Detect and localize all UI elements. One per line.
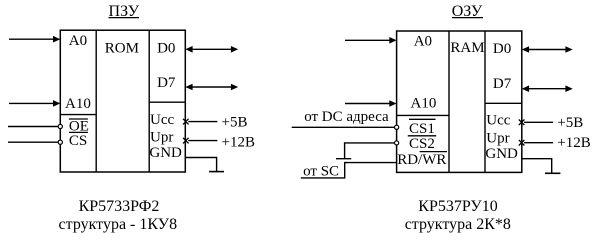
wire GND (U1)	[185, 158, 216, 172]
wire D0 bidirectional bus (U2)	[522, 46, 573, 53]
U2 address section divider	[397, 114, 449, 116]
wire D0 bidirectional bus (U1)	[185, 46, 238, 53]
ground symbol (U1)	[209, 171, 224, 173]
pin label CS with overline (U1)	[69, 132, 88, 149]
svg-text:A10: A10	[65, 96, 91, 112]
svg-text:+12В: +12В	[222, 134, 255, 150]
svg-text:A0: A0	[414, 34, 432, 50]
inversion bubble CS2 (U2)	[395, 141, 399, 145]
wire A0 input with arrow (U1)	[9, 36, 60, 43]
wire D7 bidirectional bus (U1)	[185, 84, 238, 91]
svg-text:от DC адреса: от DC адреса	[304, 109, 389, 125]
svg-text:Upr: Upr	[150, 129, 173, 145]
wire CS1 from DC (U2)	[292, 126, 395, 128]
svg-text:CS2: CS2	[409, 136, 435, 152]
svg-text:Ucc: Ucc	[150, 112, 174, 128]
IC U2 RAM body	[397, 31, 522, 172]
wire OE input (U1)	[8, 126, 58, 128]
svg-text:CS1: CS1	[409, 121, 435, 137]
U1 internal divider left	[95, 30, 97, 172]
power pin marker Upr (U2)	[519, 140, 525, 146]
wire CS2 branch (U2)	[345, 143, 395, 159]
U1 power section divider	[149, 101, 185, 103]
svg-text:A10: A10	[411, 95, 437, 111]
U1 internal divider right	[148, 30, 150, 172]
pin label OE with overline (U1)	[69, 119, 89, 135]
inversion bubble OE (U1)	[58, 124, 62, 128]
wire GND (U2)	[522, 159, 552, 174]
U2 power section divider	[485, 102, 522, 104]
svg-text:КР537РУ10: КР537РУ10	[418, 198, 497, 215]
wire +12V supply (U2)	[524, 142, 553, 144]
junction T-bar on SC branch	[336, 158, 351, 160]
svg-text:+12В: +12В	[557, 135, 590, 151]
svg-text:RAM: RAM	[450, 40, 484, 56]
node ПЗУ title	[109, 3, 140, 20]
node ОЗУ title	[452, 3, 483, 20]
wire A10 input with arrow (U2)	[345, 100, 397, 107]
svg-text:RD/WR: RD/WR	[397, 152, 446, 168]
ground symbol (U2)	[545, 172, 560, 174]
wire от SC to RD/WR (U2)	[301, 163, 397, 178]
svg-text:+5В: +5В	[557, 115, 583, 131]
svg-text:структура 2К*8: структура 2К*8	[405, 216, 511, 233]
svg-text:Upr: Upr	[486, 130, 509, 146]
power pin marker Upr (U1)	[183, 138, 189, 144]
svg-text:+5В: +5В	[222, 114, 248, 130]
power pin marker Ucc (U1)	[183, 119, 189, 125]
wire A0 input with arrow (U2)	[345, 37, 397, 44]
wire D7 bidirectional bus (U2)	[522, 85, 573, 92]
svg-text:КР5733РФ2: КР5733РФ2	[79, 198, 160, 215]
svg-text:Ucc: Ucc	[486, 113, 510, 129]
svg-text:структура - 1КУ8: структура - 1КУ8	[59, 216, 178, 233]
svg-text:ROM: ROM	[105, 41, 139, 57]
wire +12V supply (U1)	[188, 140, 217, 142]
U2 internal divider left	[448, 31, 450, 172]
svg-text:GND: GND	[485, 146, 518, 162]
svg-text:GND: GND	[149, 145, 182, 161]
power pin marker Ucc (U2)	[519, 120, 525, 126]
wire +5V supply (U2)	[524, 121, 553, 123]
svg-text:D7: D7	[493, 76, 512, 92]
svg-text:D7: D7	[157, 75, 176, 91]
svg-text:от SC: от SC	[303, 163, 339, 179]
inversion bubble CS1 (U2)	[395, 125, 399, 129]
U2 internal divider right	[484, 31, 486, 172]
wire A10 input with arrow (U1)	[9, 100, 60, 107]
pin label CS1 with overline (U2)	[409, 119, 436, 137]
svg-text:CS: CS	[69, 133, 87, 149]
svg-text:A0: A0	[69, 33, 87, 49]
svg-text:D0: D0	[157, 41, 175, 57]
svg-text:D0: D0	[493, 41, 511, 57]
pin label CS2 with overline (U2)	[408, 136, 436, 152]
IC U1 ROM body	[60, 30, 185, 172]
wire +5V supply (U1)	[188, 121, 217, 123]
pin label RD/WR with overline on WR (U2)	[397, 152, 447, 168]
wire CS input (U1)	[8, 141, 58, 143]
inversion bubble CS (U1)	[58, 140, 62, 144]
U1 address section divider	[60, 114, 96, 116]
